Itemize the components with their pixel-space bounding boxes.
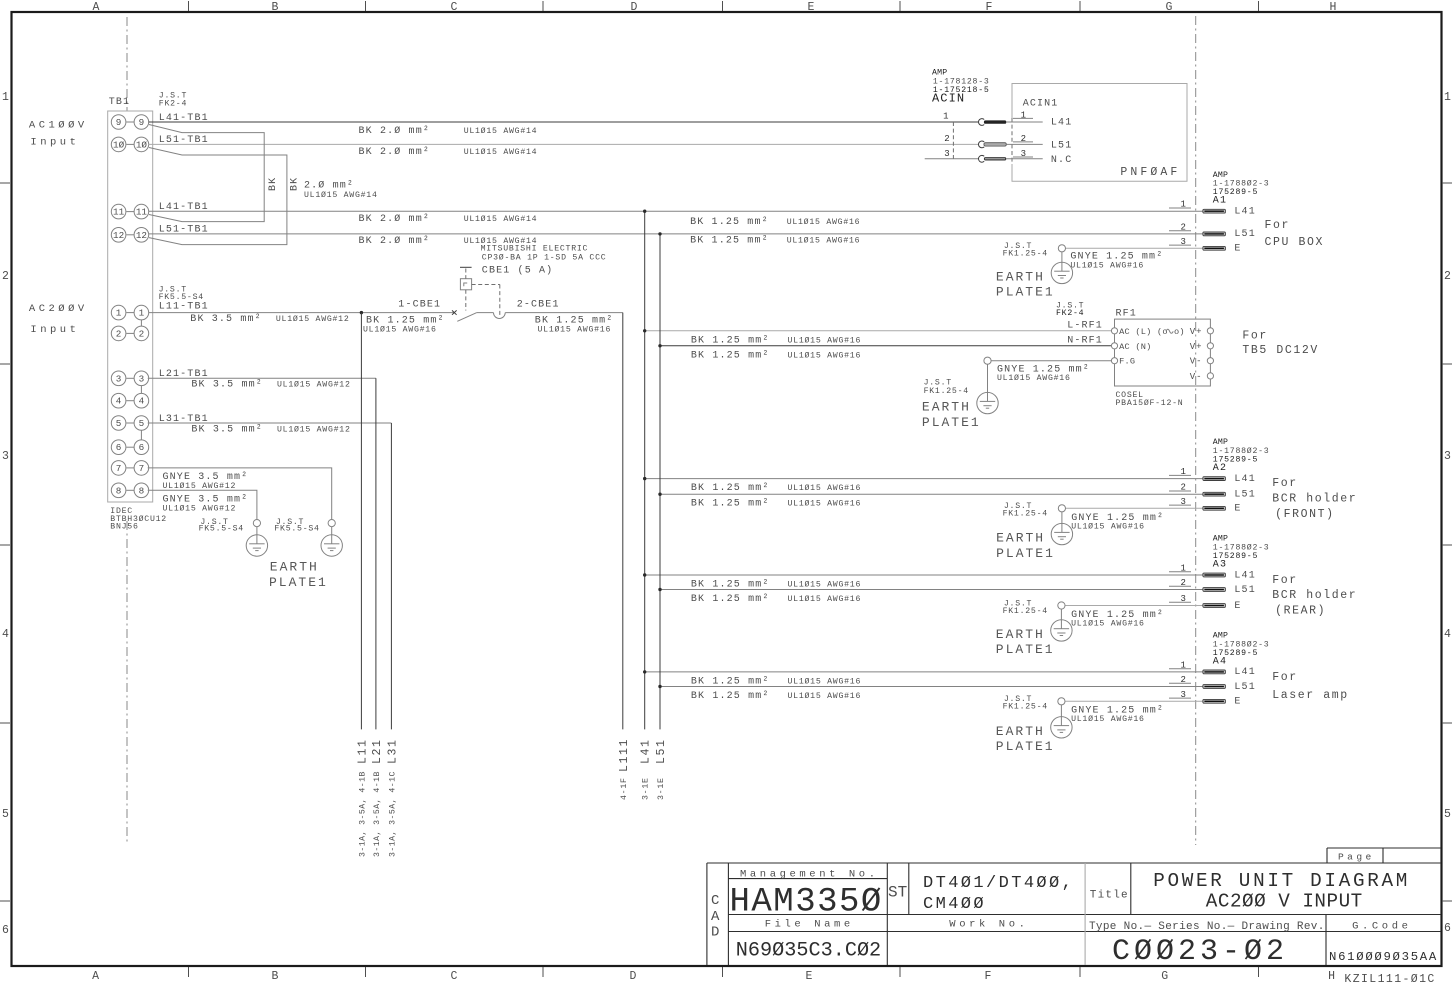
svg-text:BCR holder: BCR holder (1272, 492, 1357, 505)
wire L51 to A3 pin2 (660, 589, 1203, 591)
svg-text:6: 6 (2, 924, 9, 937)
ground earth plate terminal 8 (246, 520, 267, 557)
svg-text:UL1Ø15 AWG#12: UL1Ø15 AWG#12 (163, 504, 237, 514)
svg-text:D: D (711, 925, 719, 941)
svg-text:BK: BK (290, 177, 301, 191)
svg-text:UL1Ø15 AWG#16: UL1Ø15 AWG#16 (788, 350, 862, 360)
svg-text:A1: A1 (1213, 196, 1227, 207)
svg-text:PLATE1: PLATE1 (269, 575, 328, 590)
svg-text:1-CBE1: 1-CBE1 (398, 300, 441, 311)
svg-text:L11-TB1: L11-TB1 (159, 302, 209, 313)
svg-text:4: 4 (2, 628, 9, 641)
svg-text:EARTH: EARTH (922, 400, 971, 415)
svg-text:L21: L21 (371, 738, 384, 764)
svg-text:F.G: F.G (1119, 357, 1135, 367)
svg-text:CBE1 (5 A): CBE1 (5 A) (482, 265, 554, 277)
svg-text:3-1A, 3-5A, 4-1B: 3-1A, 3-5A, 4-1B (373, 771, 382, 857)
wire L51-TB1 from terminal 10 (149, 143, 979, 145)
svg-text:File Name: File Name (765, 918, 854, 930)
svg-text:9: 9 (116, 117, 122, 128)
ground earth plate terminal 7 (321, 520, 342, 557)
svg-text:BK 2.Ø mm²: BK 2.Ø mm² (359, 235, 431, 247)
bus L41 (644, 211, 646, 729)
svg-text:FK1.25-4: FK1.25-4 (1003, 703, 1048, 712)
svg-text:D: D (631, 1, 638, 14)
svg-text:E: E (1234, 504, 1241, 515)
svg-text:AMP: AMP (1213, 632, 1228, 641)
svg-text:Management No.: Management No. (740, 869, 879, 881)
svg-text:G.Code: G.Code (1352, 920, 1411, 932)
svg-text:3: 3 (116, 373, 122, 384)
svg-text:FK1.25-4: FK1.25-4 (924, 387, 969, 396)
RF1 output pins V+ V+ V- V- (1207, 328, 1213, 379)
svg-text:UL1Ø15 AWG#14: UL1Ø15 AWG#14 (464, 126, 538, 136)
svg-text:RF1: RF1 (1116, 309, 1137, 320)
svg-text:2: 2 (944, 134, 950, 144)
bus L51 (659, 234, 661, 730)
terminal 1-CBE1 X mark (452, 310, 457, 314)
svg-text:ACIN: ACIN (932, 92, 965, 106)
svg-text:UL1Ø15 AWG#16: UL1Ø15 AWG#16 (788, 676, 862, 686)
svg-text:PBA15ØF-12-N: PBA15ØF-12-N (1116, 398, 1184, 408)
svg-text:UL1Ø15 AWG#14: UL1Ø15 AWG#14 (304, 190, 378, 200)
svg-text:1-1788Ø2-3: 1-1788Ø2-3 (1213, 639, 1270, 649)
svg-text:BK 1.25 mm²: BK 1.25 mm² (691, 499, 770, 510)
svg-text:For: For (1272, 671, 1298, 684)
svg-text:N69Ø35C3.CØ2: N69Ø35C3.CØ2 (736, 940, 881, 963)
terminal block TB1 (29, 92, 1203, 591)
wire L31-TB1 from terminal 5 (148, 422, 392, 424)
svg-text:ST: ST (888, 884, 907, 902)
connector ACIN1 box (1012, 84, 1187, 182)
svg-text:V+: V+ (1190, 327, 1203, 337)
svg-text:4: 4 (139, 396, 145, 407)
svg-text:2: 2 (1021, 134, 1027, 144)
svg-text:FK1.25-4: FK1.25-4 (1003, 250, 1048, 259)
svg-text:UL1Ø15 AWG#16: UL1Ø15 AWG#16 (363, 324, 437, 334)
svg-text:Title: Title (1090, 890, 1129, 902)
title block (707, 848, 1441, 986)
svg-text:1-1788Ø2-3: 1-1788Ø2-3 (1213, 446, 1270, 456)
svg-text:3-1E: 3-1E (657, 777, 666, 800)
svg-text:HAM335Ø: HAM335Ø (730, 884, 883, 922)
svg-text:E: E (1234, 697, 1241, 708)
svg-text:H: H (1330, 1, 1337, 14)
svg-text:11: 11 (136, 207, 148, 218)
svg-text:A3: A3 (1213, 559, 1227, 570)
svg-text:3: 3 (1444, 450, 1451, 463)
svg-text:For: For (1272, 477, 1298, 490)
svg-text:UL1Ø15 AWG#16: UL1Ø15 AWG#16 (788, 499, 862, 509)
wire L41-TB1 from terminal 11 (149, 210, 1203, 212)
svg-text:1-1788Ø2-3: 1-1788Ø2-3 (1213, 542, 1270, 552)
svg-text:F: F (985, 970, 992, 983)
svg-text:L41: L41 (640, 738, 653, 764)
svg-text:FK5.5-S4: FK5.5-S4 (199, 525, 244, 534)
svg-text:CØØ23-Ø2: CØØ23-Ø2 (1112, 935, 1288, 969)
svg-text:Page: Page (1338, 852, 1375, 863)
bus L21 (375, 378, 377, 729)
svg-text:3: 3 (2, 450, 9, 463)
svg-text:PLATE1: PLATE1 (922, 415, 981, 430)
ground earth plate A3 (1051, 602, 1072, 641)
svg-text:AMP: AMP (1213, 438, 1228, 447)
wire N.C pin3 (925, 158, 979, 160)
wire F.G to earth (991, 360, 1111, 362)
breaker handle T-bar (460, 266, 472, 268)
svg-text:L111: L111 (618, 738, 631, 772)
svg-text:UL1Ø15 AWG#16: UL1Ø15 AWG#16 (1071, 714, 1145, 724)
svg-text:E: E (1234, 601, 1241, 612)
svg-text:F: F (986, 1, 993, 14)
pin 3 contact (978, 149, 1072, 166)
wire N-RF1 (660, 345, 1111, 347)
svg-text:CM4ØØ: CM4ØØ (923, 895, 986, 914)
svg-text:8: 8 (139, 485, 145, 496)
svg-text:1Ø: 1Ø (136, 139, 148, 150)
svg-text:V-: V- (1190, 372, 1203, 382)
svg-text:N.C: N.C (1051, 155, 1072, 166)
svg-text:5: 5 (1444, 808, 1451, 821)
svg-text:A: A (93, 1, 100, 14)
svg-text:L41: L41 (1234, 570, 1255, 581)
svg-text:BK 3.5 mm²: BK 3.5 mm² (190, 314, 262, 325)
svg-text:5: 5 (139, 418, 145, 429)
svg-text:1Ø: 1Ø (113, 139, 125, 150)
svg-text:BK 3.5 mm²: BK 3.5 mm² (191, 424, 263, 435)
svg-text:B: B (272, 1, 279, 14)
svg-text:For: For (1265, 219, 1291, 232)
svg-text:2-CBE1: 2-CBE1 (517, 300, 560, 311)
wire GNYE from terminal 8 (148, 490, 257, 519)
wire 2-CBE1 to L111 bus (505, 312, 623, 314)
svg-text:E: E (1234, 244, 1241, 255)
svg-text:L41: L41 (1234, 207, 1255, 218)
circuit breaker CBE1 (363, 245, 623, 335)
svg-text:UL1Ø15 AWG#16: UL1Ø15 AWG#16 (1070, 260, 1144, 270)
svg-text:UL1Ø15 AWG#16: UL1Ø15 AWG#16 (788, 691, 862, 701)
svg-text:UL1Ø15 AWG#12: UL1Ø15 AWG#12 (163, 481, 237, 491)
wire L51 to A4 pin2 (660, 686, 1203, 688)
svg-text:BK 3.5 mm²: BK 3.5 mm² (191, 380, 263, 391)
svg-text:3-1A, 3-5A, 4-1B: 3-1A, 3-5A, 4-1B (359, 771, 368, 857)
svg-text:PLATE1: PLATE1 (996, 285, 1055, 300)
breaker contact blade (457, 313, 477, 322)
svg-text:G: G (1161, 970, 1168, 983)
svg-text:EARTH: EARTH (996, 269, 1045, 284)
svg-text:6: 6 (116, 442, 122, 453)
svg-text:DT4Ø1/DT4ØØ,: DT4Ø1/DT4ØØ, (923, 874, 1074, 893)
svg-text:FK2-4: FK2-4 (159, 100, 187, 109)
pin 2 contact (978, 134, 1072, 151)
svg-text:3-1E: 3-1E (642, 777, 651, 800)
light cell divider (1084, 863, 1086, 965)
svg-text:UL1Ø15 AWG#16: UL1Ø15 AWG#16 (788, 335, 862, 345)
svg-text:UL1Ø15 AWG#16: UL1Ø15 AWG#16 (788, 580, 862, 590)
svg-text:BK 1.25 mm²: BK 1.25 mm² (691, 335, 770, 346)
svg-text:BK 1.25 mm²: BK 1.25 mm² (691, 691, 770, 702)
svg-text:POWER UNIT DIAGRAM: POWER UNIT DIAGRAM (1153, 870, 1410, 892)
svg-text:1: 1 (116, 308, 122, 319)
wire L51 to A2 pin2 (660, 493, 1203, 495)
junction dot L11 bus (360, 311, 363, 314)
jumper loop terminal 10 to 12 (149, 148, 287, 245)
svg-text:3: 3 (1021, 149, 1027, 159)
svg-text:L51: L51 (1234, 682, 1255, 693)
wire L21-TB1 from terminal 3 (148, 377, 376, 379)
svg-text:UL1Ø15 AWG#14: UL1Ø15 AWG#14 (464, 147, 538, 157)
svg-text:Input: Input (30, 137, 79, 149)
svg-text:L21-TB1: L21-TB1 (159, 369, 209, 380)
svg-text:AC2ØØV: AC2ØØV (29, 303, 88, 315)
ground earth plate A4 (1051, 698, 1072, 738)
svg-text:8: 8 (116, 485, 122, 496)
svg-text:D: D (630, 970, 637, 983)
svg-text:L51: L51 (1234, 490, 1255, 501)
svg-text:ACIN1: ACIN1 (1023, 99, 1059, 110)
svg-text:A2: A2 (1213, 463, 1227, 474)
svg-text:AMP: AMP (932, 69, 947, 78)
svg-text:6: 6 (139, 442, 145, 453)
svg-text:CP3Ø-BA 1P 1-SD 5A CCC: CP3Ø-BA 1P 1-SD 5A CCC (482, 253, 607, 263)
svg-text:For: For (1242, 329, 1268, 342)
svg-text:12: 12 (136, 230, 147, 241)
svg-text:UL1Ø15 AWG#16: UL1Ø15 AWG#16 (1071, 618, 1145, 628)
svg-text:C: C (451, 970, 458, 983)
svg-text:BK 2.Ø mm²: BK 2.Ø mm² (359, 146, 431, 158)
svg-text:E: E (806, 970, 813, 983)
svg-text:BK 2.Ø mm²: BK 2.Ø mm² (359, 213, 431, 225)
ground earth plate A1 (1051, 245, 1072, 284)
svg-text:G: G (1166, 1, 1173, 14)
breaker mechanism box (460, 279, 471, 290)
svg-text:7: 7 (139, 463, 145, 474)
svg-text:L31: L31 (386, 738, 399, 764)
svg-text:BK 1.25 mm²: BK 1.25 mm² (691, 676, 770, 687)
svg-text:9: 9 (139, 117, 145, 128)
svg-text:EARTH: EARTH (270, 560, 319, 575)
svg-text:UL1Ø15 AWG#16: UL1Ø15 AWG#16 (538, 324, 612, 334)
svg-text:A4: A4 (1213, 656, 1227, 667)
svg-text:V+: V+ (1190, 342, 1203, 352)
svg-text:1-1788Ø2-3: 1-1788Ø2-3 (1213, 179, 1270, 189)
svg-text:UL1Ø15 AWG#12: UL1Ø15 AWG#12 (277, 380, 351, 390)
svg-text:PLATE1: PLATE1 (996, 642, 1055, 657)
svg-text:Type No.— Series No.— Drawing: Type No.— Series No.— Drawing Rev. (1089, 921, 1325, 933)
svg-text:L51-TB1: L51-TB1 (159, 225, 209, 236)
svg-text:4: 4 (1444, 628, 1451, 641)
svg-text:BCR holder: BCR holder (1272, 589, 1357, 602)
svg-text:N61ØØØ9Ø35AA: N61ØØØ9Ø35AA (1329, 950, 1438, 964)
svg-text:FK2-4: FK2-4 (1056, 309, 1084, 318)
svg-text:L41: L41 (1234, 474, 1255, 485)
bus L31 (390, 423, 392, 729)
svg-text:E: E (808, 1, 815, 14)
svg-text:2: 2 (139, 328, 145, 339)
terminals 9-12 and 1-8 (111, 115, 148, 498)
svg-text:1: 1 (139, 308, 145, 319)
svg-text:BK 2.Ø mm²: BK 2.Ø mm² (359, 125, 431, 137)
moving contact arc (494, 313, 506, 319)
svg-text:12: 12 (113, 230, 124, 241)
svg-text:1: 1 (943, 112, 949, 122)
svg-text:3-1A, 3-5A, 4-1C: 3-1A, 3-5A, 4-1C (388, 771, 397, 857)
vertical buses (356, 210, 668, 858)
ground earth plate RF1 (977, 357, 998, 414)
svg-text:A: A (711, 909, 720, 925)
dashed linkage lines (465, 269, 467, 279)
svg-text:A: A (92, 970, 99, 983)
wire L41-TB1 from terminal 9 (149, 121, 979, 123)
svg-text:3: 3 (944, 149, 950, 159)
jumper loop terminal 9 to 11 (149, 125, 264, 222)
svg-text:L-RF1: L-RF1 (1067, 321, 1103, 332)
svg-text:11: 11 (113, 207, 125, 218)
svg-text:UL1Ø15 AWG#16: UL1Ø15 AWG#16 (1071, 521, 1145, 531)
svg-text:KZIL111-Ø1C: KZIL111-Ø1C (1344, 973, 1435, 986)
svg-text:BK 1.25 mm²: BK 1.25 mm² (691, 483, 770, 494)
dashed tie line (952, 122, 954, 159)
svg-text:PLATE1: PLATE1 (996, 739, 1055, 754)
svg-text:L51-TB1: L51-TB1 (159, 135, 209, 146)
svg-text:1: 1 (1021, 111, 1027, 121)
partition dash-dot line left (127, 16, 1196, 845)
svg-text:TB5 DC12V: TB5 DC12V (1242, 344, 1319, 357)
svg-text:L41-TB1: L41-TB1 (159, 113, 209, 124)
svg-text:FK5.5-S4: FK5.5-S4 (274, 525, 319, 534)
svg-text:7: 7 (116, 463, 122, 474)
svg-text:EARTH: EARTH (996, 531, 1045, 546)
RF1 box (1115, 319, 1211, 386)
ground earth plate A2 (1051, 505, 1072, 545)
svg-text:AC2ØØ V INPUT: AC2ØØ V INPUT (1206, 891, 1363, 913)
svg-text:H: H (1328, 970, 1335, 983)
svg-text:o): o) (1174, 327, 1185, 337)
connector A1 for CPU BOX (996, 171, 1324, 300)
svg-text:B: B (272, 970, 279, 983)
svg-text:BK: BK (268, 177, 279, 191)
svg-text:L51: L51 (1234, 585, 1255, 596)
svg-text:C: C (711, 893, 719, 909)
svg-text:1: 1 (1444, 91, 1451, 104)
wire L11-TB1 from terminal 1 (149, 312, 455, 314)
wire L-RF1 (645, 330, 1112, 332)
svg-text:FK1.25-4: FK1.25-4 (1003, 607, 1048, 616)
svg-text:For: For (1272, 574, 1298, 587)
bus L11 (360, 313, 362, 730)
svg-text:UL1Ø15 AWG#16: UL1Ø15 AWG#16 (788, 483, 862, 493)
terminal numbers (113, 117, 147, 496)
wire L51-TB1 from terminal 12 (149, 233, 1203, 235)
svg-text:4: 4 (116, 396, 122, 407)
svg-text:L41: L41 (1234, 667, 1255, 678)
svg-text:L51: L51 (655, 738, 668, 764)
AC100V wires and connector ACIN1 (925, 69, 1187, 182)
svg-text:3: 3 (139, 373, 145, 384)
svg-text:UL1Ø15 AWG#12: UL1Ø15 AWG#12 (276, 314, 350, 324)
connector A2 (645, 438, 1358, 561)
svg-text:UL1Ø15 AWG#12: UL1Ø15 AWG#12 (277, 424, 351, 434)
svg-text:5: 5 (2, 808, 9, 821)
pin 1 contact (978, 111, 1072, 129)
svg-text:(REAR): (REAR) (1275, 605, 1326, 618)
svg-text:BK 1.25 mm²: BK 1.25 mm² (691, 350, 770, 361)
svg-text:PNFØAF: PNFØAF (1120, 166, 1180, 179)
svg-text:5: 5 (116, 418, 122, 429)
svg-text:L11: L11 (356, 738, 369, 764)
svg-text:BK 1.25 mm²: BK 1.25 mm² (691, 594, 770, 605)
svg-text:BNJ56: BNJ56 (110, 523, 138, 532)
svg-text:UL1Ø15 AWG#16: UL1Ø15 AWG#16 (787, 217, 861, 227)
svg-text:1: 1 (2, 91, 9, 104)
svg-text:4-1F: 4-1F (620, 777, 629, 800)
partition dash-dot line right (1195, 16, 1197, 845)
wire L41 to A4 pin1 (645, 671, 1203, 673)
svg-text:2: 2 (1444, 270, 1451, 283)
svg-text:AMP: AMP (1213, 535, 1228, 544)
svg-text:TB1: TB1 (109, 97, 130, 108)
power supply RF1 (645, 302, 1319, 430)
svg-text:6: 6 (1444, 922, 1451, 935)
svg-text:PLATE1: PLATE1 (996, 546, 1055, 561)
svg-text:C: C (451, 1, 458, 14)
svg-text:L51: L51 (1051, 140, 1072, 151)
svg-text:2: 2 (116, 328, 122, 339)
svg-text:L51: L51 (1234, 229, 1255, 240)
svg-text:Laser amp: Laser amp (1272, 689, 1349, 702)
wire L41 to A2 pin1 (645, 478, 1203, 480)
svg-text:L41-TB1: L41-TB1 (159, 202, 209, 213)
svg-text:V-: V- (1190, 357, 1203, 367)
svg-text:AC1ØØV: AC1ØØV (29, 120, 88, 132)
svg-text:CPU BOX: CPU BOX (1265, 236, 1325, 249)
connector A3 (645, 535, 1358, 658)
wire L41 to A3 pin1 (645, 574, 1203, 576)
svg-text:EARTH: EARTH (996, 724, 1045, 739)
RF1 input pins (1111, 328, 1117, 364)
svg-text:BK 1.25 mm²: BK 1.25 mm² (690, 217, 769, 228)
svg-text:AMP: AMP (1213, 171, 1228, 180)
junction dots (643, 210, 662, 689)
connector A4 (645, 632, 1349, 755)
svg-text:N-RF1: N-RF1 (1067, 335, 1103, 346)
svg-text:FK1.25-4: FK1.25-4 (1003, 510, 1048, 519)
svg-text:2: 2 (2, 270, 9, 283)
svg-text:AC (N): AC (N) (1119, 342, 1151, 352)
svg-text:(FRONT): (FRONT) (1275, 508, 1335, 521)
wire GNYE from terminal 7 (148, 468, 332, 520)
svg-text:UL1Ø15 AWG#16: UL1Ø15 AWG#16 (788, 594, 862, 604)
svg-text:BK 1.25 mm²: BK 1.25 mm² (690, 236, 769, 247)
svg-text:UL1Ø15 AWG#16: UL1Ø15 AWG#16 (997, 373, 1071, 383)
svg-text:Input: Input (30, 324, 79, 336)
svg-text:EARTH: EARTH (996, 627, 1045, 642)
svg-text:Work No.: Work No. (949, 918, 1028, 930)
svg-text:BK 1.25 mm²: BK 1.25 mm² (691, 580, 770, 591)
bus L111 (622, 313, 624, 730)
svg-text:MITSUBISHI ELECTRIC: MITSUBISHI ELECTRIC (481, 245, 589, 254)
svg-text:UL1Ø15 AWG#14: UL1Ø15 AWG#14 (464, 214, 538, 224)
svg-text:L41: L41 (1051, 118, 1072, 129)
svg-text:L31-TB1: L31-TB1 (159, 414, 209, 425)
svg-text:AC (L) (o: AC (L) (o (1119, 327, 1168, 337)
svg-text:UL1Ø15 AWG#16: UL1Ø15 AWG#16 (787, 236, 861, 246)
